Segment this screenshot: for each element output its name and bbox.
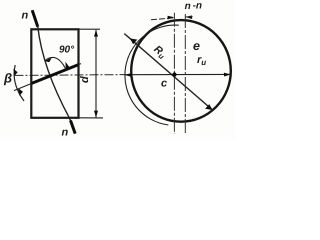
svg-text:β: β (3, 71, 12, 86)
svg-text:e: e (193, 39, 200, 53)
vertical line through c (173, 13, 175, 134)
svg-text:d: d (79, 76, 91, 83)
section line n-n (thin, slightly bowed) (38, 27, 71, 121)
d dimension extension line top (79, 28, 101, 30)
e dimension leader (left) (151, 18, 174, 20)
R radius line (through c, diagonal) (124, 34, 213, 111)
cylinder outline (rectangle, side view) (31, 29, 78, 118)
90 arc arrow left (45, 58, 52, 63)
oblique line thin extension (right) (78, 64, 81, 65)
d arrow bottom (94, 111, 98, 118)
label R (with subscript, rotated) (151, 43, 169, 61)
svg-text:n: n (22, 10, 29, 22)
R arrow upper-left (130, 38, 137, 44)
e arrow left (pointing right at line 1) (168, 16, 175, 20)
beta arrow lower (18, 88, 23, 96)
svg-text:n: n (185, 1, 191, 12)
svg-text:-n: -n (193, 1, 202, 12)
R arrow lower-right (205, 104, 212, 110)
90 arc arrow right (65, 62, 69, 70)
d arrow top (94, 30, 98, 37)
horizontal radius arrow right (at circle, r) (224, 73, 231, 77)
svg-text:c: c (161, 78, 167, 90)
center point c (dot) (172, 72, 176, 76)
d dimension line (95, 30, 97, 117)
vertical center line of circle (184, 14, 186, 134)
main circle (honed bore, radius r) (131, 20, 231, 122)
oblique line thin extension (left) (14, 83, 32, 90)
beta angle arc (14, 65, 24, 101)
beta arrow upper (13, 69, 17, 76)
90-degree arc (45, 57, 66, 68)
svg-text:90°: 90° (59, 45, 75, 56)
oblique measuring line (thick) (31, 65, 78, 84)
R arc (eccentric arc through c) (125, 25, 179, 125)
e arrow right (pointing left at line 2) (185, 15, 192, 19)
horizontal radius arrow left (at R arc) (125, 73, 132, 77)
d dimension extension line bottom (79, 117, 104, 119)
radius dimension line across circle (solid) (125, 73, 231, 75)
section end stroke top (thick) (32, 10, 38, 27)
e dimension right tail (185, 16, 192, 18)
section end stroke bottom (thick) (71, 121, 76, 134)
horizontal center line (axis through both views) (15, 74, 126, 77)
svg-text:n: n (62, 127, 69, 139)
